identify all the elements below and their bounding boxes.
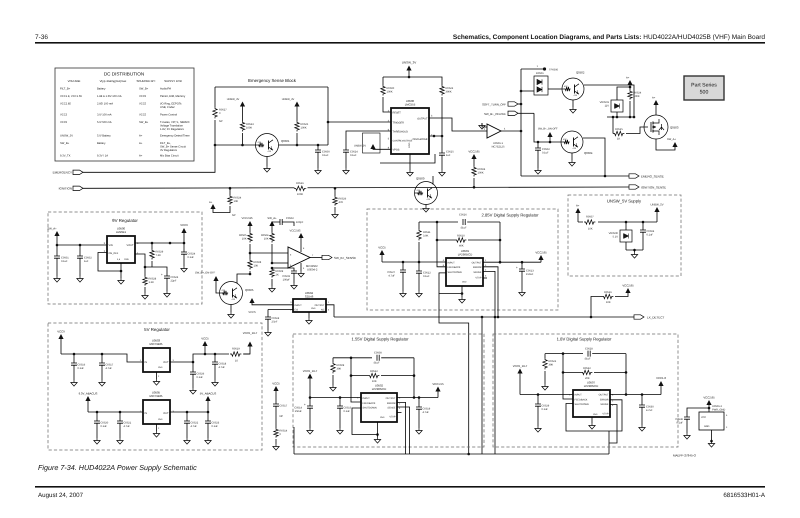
svg-text:CONTRLVOLTAGE: CONTRLVOLTAGE	[393, 139, 413, 142]
svg-text:4.7uF: 4.7uF	[423, 411, 430, 414]
svg-text:47K: 47K	[563, 138, 567, 141]
svg-text:47K: 47K	[573, 147, 577, 150]
svg-text:UNSW_3V: UNSW_3V	[227, 98, 240, 101]
svg-text:VCC1.8, VCC1.55: VCC1.8, VCC1.55	[60, 95, 82, 98]
svg-text:10K: 10K	[606, 301, 611, 304]
wire Q0505 collector	[237, 274, 250, 283]
regulator U0507 LP2985/CD	[573, 390, 610, 417]
svg-text:SW_B+: SW_B+	[139, 121, 149, 124]
svg-text:NP: NP	[280, 415, 284, 418]
wire U0501 shutdown chain to bottom bus	[439, 294, 469, 455]
svg-text:0.1uF: 0.1uF	[101, 425, 108, 428]
svg-text:August 24, 2007: August 24, 2007	[38, 492, 84, 499]
ground S2D46	[308, 312, 310, 318]
svg-text:SW_B+_ON-OFF: SW_B+_ON-OFF	[484, 112, 506, 116]
capacitor C0529 0.1uF	[537, 395, 539, 405]
svg-text:47K: 47K	[339, 201, 344, 204]
ground Q0505 emitter	[230, 305, 232, 313]
svg-text:UNSW_3V: UNSW_3V	[354, 145, 366, 148]
svg-text:9.3V / 1A: 9.3V / 1A	[97, 155, 108, 158]
svg-text:VCC5: VCC5	[248, 311, 256, 314]
power SW_A+ output	[656, 139, 675, 150]
svg-text:C0502: C0502	[286, 217, 294, 220]
svg-text:Emergency Sense Block: Emergency Sense Block	[248, 78, 297, 83]
svg-text:47K: 47K	[427, 198, 431, 201]
Part Series 500 box	[684, 76, 724, 100]
svg-text:ERROR: ERROR	[600, 398, 609, 401]
svg-text:1.8V, 3V Regulators: 1.8V, 3V Regulators	[160, 128, 184, 131]
svg-text:VCC5: VCC5	[139, 95, 147, 98]
svg-text:Schematics, Component Location: Schematics, Component Location Diagrams,…	[453, 34, 765, 41]
resistor R0500 100K	[381, 85, 385, 96]
svg-text:SENSE: SENSE	[473, 271, 482, 274]
svg-text:TP0500: TP0500	[549, 69, 559, 72]
svg-text:Part Series: Part Series	[691, 83, 717, 89]
wire ON_OFF loop	[98, 253, 121, 272]
svg-text:RESET: RESET	[393, 112, 402, 115]
wire opamp plus input	[272, 262, 288, 264]
wire U0507 sense to bottom bus	[609, 405, 617, 443]
capacitor C0503 100pF	[272, 268, 294, 271]
wire sense block top rail	[215, 86, 328, 88]
svg-text:4.7uF: 4.7uF	[106, 367, 113, 370]
svg-text:0.1uF: 0.1uF	[423, 275, 430, 278]
svg-text:100K: 100K	[246, 126, 252, 129]
resistor R0514 0	[274, 428, 278, 438]
svg-text:UNSW_3V: UNSW_3V	[402, 61, 417, 65]
wire emergency to sense block	[83, 145, 215, 172]
wire bottom sense bus	[294, 453, 609, 455]
svg-text:VIN: VIN	[109, 244, 113, 247]
resistor R0526 47K	[334, 188, 336, 196]
svg-text:Q0501: Q0501	[281, 139, 290, 143]
svg-text:S2D46: S2D46	[305, 294, 314, 298]
op-amp U0504-2 MC33502	[288, 247, 310, 268]
wire 5V output rail	[170, 354, 250, 362]
capacitor C0523b 0.1uF	[207, 412, 209, 421]
capacitor C0520 0.1uF	[96, 412, 98, 421]
svg-text:4.7uF: 4.7uF	[124, 425, 131, 428]
svg-text:Q0503: Q0503	[670, 126, 679, 130]
svg-text:A+: A+	[652, 97, 656, 100]
svg-text:GND: GND	[593, 413, 598, 416]
connector IGNITION_SENSE	[629, 185, 639, 189]
svg-text:GND: GND	[158, 418, 163, 421]
svg-text:1.55V Digital Supply Regulator: 1.55V Digital Supply Regulator	[351, 337, 409, 342]
wire U0500 adj pin	[135, 254, 152, 267]
capacitor C0513 150uF	[521, 262, 523, 269]
svg-text:NC: NC	[321, 309, 325, 312]
svg-text:47K: 47K	[258, 141, 262, 144]
svg-text:EMERGENCY: EMERGENCY	[53, 171, 72, 175]
regulator U0503 MIC79485	[143, 348, 170, 372]
svg-text:VCC2.85: VCC2.85	[535, 251, 547, 255]
resistor R0529 7.5K	[151, 243, 153, 249]
svg-text:VCC5: VCC5	[378, 246, 386, 250]
svg-text:Emergency Detect/Timer: Emergency Detect/Timer	[160, 135, 190, 138]
svg-text:500: 500	[700, 90, 709, 96]
ground 555 GND pin	[409, 154, 411, 170]
svg-text:10K: 10K	[234, 200, 239, 203]
wire 555 output	[429, 118, 487, 131]
svg-text:150uF: 150uF	[526, 273, 534, 276]
svg-text:47K: 47K	[232, 298, 236, 301]
capacitor C0519b 4.7uF	[418, 398, 420, 408]
svg-text:.01uF: .01uF	[373, 362, 380, 365]
svg-text:5.1V: 5.1V	[613, 235, 619, 238]
svg-text:U0506-1: U0506-1	[493, 142, 504, 145]
wire 1.55V feedback leg	[351, 358, 361, 402]
capacitor C0524 0.1uF	[343, 150, 349, 152]
resistor R0516b 10K	[591, 297, 602, 318]
svg-text:UNSW_3V: UNSW_3V	[282, 98, 295, 101]
resistor R0523 100K	[240, 121, 244, 132]
wire error bus right	[494, 317, 496, 454]
wire sense block right leg	[327, 87, 329, 145]
svg-text:27pF: 27pF	[272, 320, 278, 323]
svg-text:1uF: 1uF	[84, 260, 89, 263]
svg-text:C0508: C0508	[374, 352, 382, 355]
svg-text:Battery: Battery	[97, 88, 106, 91]
ground U0501 GND	[439, 273, 462, 294]
svg-text:R0516: R0516	[296, 182, 304, 185]
svg-text:IN: IN	[145, 361, 148, 364]
ground opamp vss	[300, 263, 302, 271]
svg-text:VOLTAGE: VOLTAGE	[68, 79, 81, 83]
svg-text:Mic Bias Circuit: Mic Bias Circuit	[160, 155, 179, 158]
svg-text:ERROR: ERROR	[473, 266, 482, 269]
svg-text:SW_B+: SW_B+	[139, 88, 149, 91]
capacitor C0504 0.1uF	[642, 222, 644, 230]
resistor R0509 2K	[271, 267, 274, 270]
resistor R0515 1K	[612, 117, 614, 134]
wire ignition line	[83, 187, 629, 188]
svg-text:0.1uF: 0.1uF	[542, 151, 549, 154]
ground U0502 GND	[352, 408, 378, 435]
svg-text:VCC9: VCC9	[57, 330, 65, 334]
svg-text:SW_A+: SW_A+	[47, 227, 57, 231]
svg-text:IGNITION_SENSE: IGNITION_SENSE	[641, 186, 666, 190]
svg-text:DC DISTRIBUTION: DC DISTRIBUTION	[104, 72, 144, 77]
svg-text:OUTPUT: OUTPUT	[472, 261, 482, 264]
svg-text:4.7uF: 4.7uF	[646, 409, 653, 412]
regulator U0501 LP2985/CD	[446, 258, 483, 286]
svg-text:MC33502: MC33502	[306, 265, 318, 268]
svg-text:5.0/ Battery: 5.0/ Battery	[97, 135, 111, 138]
wire U0502 sense drop	[397, 407, 410, 454]
svg-text:PWR_GND: PWR_GND	[712, 408, 725, 411]
svg-text:U0504-2: U0504-2	[307, 269, 318, 272]
node ignition-R0504 junction	[473, 186, 476, 189]
svg-text:SOURCED BY:: SOURCED BY:	[136, 79, 155, 83]
diode D0501	[521, 90, 534, 92]
wire gate rail	[607, 116, 634, 118]
resistor R0521 39K	[544, 354, 546, 358]
svg-text:SOFT_TURN_OFF: SOFT_TURN_OFF	[482, 103, 506, 107]
svg-text:VCC5_FILT: VCC5_FILT	[243, 331, 258, 335]
svg-text:VCC2.85: VCC2.85	[290, 230, 301, 233]
svg-text:10K: 10K	[242, 237, 247, 240]
wire 2.85V output rail	[483, 261, 541, 263]
ground Q0504 emitter	[571, 153, 573, 160]
capacitor C0519 27pF	[267, 310, 269, 318]
wire 1.55V output rail	[397, 397, 438, 399]
wire 9V output rail	[135, 242, 184, 244]
wire EO tap	[268, 309, 293, 311]
connector LX_DETECT	[634, 315, 644, 319]
capacitor C0528 .01uF	[588, 351, 590, 357]
transistor Q0503 P-FET	[644, 115, 668, 139]
svg-text:SHUTDOWN: SHUTDOWN	[448, 271, 462, 274]
svg-text:0.1uF: 0.1uF	[188, 256, 195, 259]
svg-text:NP: NP	[232, 214, 236, 217]
capacitor C0502c 100pF feedback	[280, 219, 282, 225]
svg-text:Battery: Battery	[97, 142, 106, 145]
svg-text:C0517: C0517	[280, 405, 288, 408]
svg-text:47K: 47K	[574, 94, 578, 97]
svg-text:Q0502: Q0502	[576, 71, 585, 75]
transistor Q0501	[256, 134, 279, 157]
svg-text:39K: 39K	[337, 367, 342, 370]
svg-text:GND: GND	[158, 366, 163, 369]
wire LX_DETECT net	[334, 316, 634, 318]
svg-text:MIC79485: MIC79485	[150, 394, 163, 398]
capacitor C0525 1uF	[441, 136, 443, 153]
resistor R0522b 20K	[563, 371, 581, 373]
svg-text:0.1uF: 0.1uF	[212, 425, 219, 428]
svg-text:9V Regulator: 9V Regulator	[112, 218, 138, 223]
svg-text:0.1uF: 0.1uF	[350, 154, 357, 157]
svg-text:4.7uF: 4.7uF	[191, 425, 198, 428]
svg-text:11V: 11V	[605, 104, 610, 107]
svg-text:UNSW_5V Supply: UNSW_5V Supply	[607, 199, 642, 204]
svg-text:5V_ABACUS: 5V_ABACUS	[200, 392, 217, 396]
wire U0502 error drop	[397, 402, 406, 454]
svg-text:VCC2.85: VCC2.85	[60, 103, 71, 106]
svg-text:OUTPUT: OUTPUT	[386, 397, 396, 400]
ground Q0502 emitter	[572, 100, 574, 107]
svg-text:FEEDBACK: FEEDBACK	[575, 398, 588, 401]
capacitor C0508 .01uF	[377, 355, 379, 361]
svg-text:NP: NP	[219, 120, 223, 123]
svg-text:VCC2.85: VCC2.85	[622, 284, 634, 288]
svg-text:100K: 100K	[478, 171, 484, 174]
svg-text:VCC1.8: VCC1.8	[656, 376, 666, 380]
svg-text:1.88 & 1.55/ 100 mA: 1.88 & 1.55/ 100 mA	[97, 95, 122, 98]
svg-text:VCC5: VCC5	[60, 121, 68, 124]
wire 555 top rail	[383, 77, 442, 85]
svg-text:0.1uF: 0.1uF	[542, 408, 549, 411]
resistor R0528 1.2K	[143, 276, 147, 286]
wire Q0501 base rail	[215, 144, 256, 146]
svg-text:LP2985/CD: LP2985/CD	[372, 387, 386, 391]
svg-text:VCC2.85: VCC2.85	[242, 217, 253, 220]
svg-text:100K: 100K	[297, 193, 303, 196]
svg-text:0.1uF: 0.1uF	[647, 233, 654, 236]
regulator U0502 LP2985/CD	[361, 393, 397, 422]
wire 1.8V top loop right leg	[625, 354, 627, 395]
ground UNSW	[626, 249, 643, 251]
capacitor C0514 150uF	[309, 398, 311, 407]
svg-text:1.8V Digital Supply Regulator: 1.8V Digital Supply Regulator	[557, 337, 612, 342]
node ignition-R0524 junction	[229, 187, 232, 190]
svg-text:LP2985/CD: LP2985/CD	[584, 384, 598, 388]
wire UNSW rail	[578, 221, 657, 223]
capacitor C0502 0.1uF	[537, 141, 540, 144]
svg-text:2.85/ 100 mA: 2.85/ 100 mA	[97, 103, 113, 106]
5V Regulator block	[48, 323, 262, 450]
capacitor C0502 1uF (9V)	[79, 245, 81, 256]
capacitor C0517 4.7uF	[101, 354, 103, 363]
svg-text:SENSE: SENSE	[387, 407, 396, 410]
svg-text:SW_B+_SENSE: SW_B+_SENSE	[334, 256, 356, 260]
svg-text:INPUT: INPUT	[363, 397, 371, 400]
svg-text:5V Regulator: 5V Regulator	[144, 327, 170, 332]
svg-text:THRESHOLD: THRESHOLD	[393, 131, 409, 134]
svg-text:4.7uF: 4.7uF	[388, 274, 395, 277]
svg-text:150uF: 150uF	[295, 410, 303, 413]
svg-text:IGNITION: IGNITION	[59, 187, 72, 191]
zener VR0500 5.1V	[625, 222, 627, 230]
svg-text:47K: 47K	[222, 289, 226, 292]
wire 1.8V feedback leg	[563, 354, 573, 399]
svg-text:SW_A+: SW_A+	[267, 217, 277, 220]
svg-text:VTAP: VTAP	[602, 413, 608, 416]
svg-text:7-36: 7-36	[35, 34, 48, 41]
wire 2.85V input rail	[382, 261, 446, 263]
svg-text:SW_B+_ON-OFF: SW_B+_ON-OFF	[195, 272, 216, 275]
svg-text:0.1uF: 0.1uF	[61, 260, 68, 263]
capacitor C0526b 0.1uF	[192, 362, 194, 372]
svg-text:1.2K: 1.2K	[149, 281, 155, 284]
wire 1.55V top loop right leg	[413, 358, 415, 398]
svg-text:SENSE: SENSE	[600, 403, 609, 406]
wire 1.8V top loop	[545, 353, 583, 355]
ground U0507 GND	[591, 417, 593, 423]
svg-text:GND: GND	[124, 258, 129, 261]
svg-text:R0516: R0516	[604, 291, 612, 294]
transistor Q0504	[561, 131, 583, 153]
svg-text:OUTPUT: OUTPUT	[417, 118, 428, 121]
svg-text:FILT_B+: FILT_B+	[60, 88, 71, 91]
svg-text:R0512: R0512	[370, 370, 378, 373]
svg-text:VCC9: VCC9	[180, 223, 188, 227]
DC DISTRIBUTION table	[55, 68, 194, 161]
svg-text:INPUT: INPUT	[575, 394, 583, 397]
wire S2D46 output to LX net	[326, 305, 334, 317]
svg-text:40K: 40K	[459, 245, 464, 248]
svg-text:100K: 100K	[301, 126, 307, 129]
ground U0503	[156, 372, 158, 379]
svg-text:IN: IN	[145, 412, 148, 415]
svg-text:SW_B+_ON-OFF: SW_B+_ON-OFF	[538, 128, 558, 131]
wire D0501 to Q0502	[548, 88, 562, 90]
svg-text:1uF: 1uF	[446, 154, 451, 157]
svg-text:0.1uF: 0.1uF	[322, 154, 329, 157]
wire U0507 error loop	[566, 400, 622, 431]
zener VR0501 11V	[617, 87, 630, 100]
wire Q0502 collector to gate node	[584, 85, 634, 117]
svg-text:2.85V Digital Supply Regulator: 2.85V Digital Supply Regulator	[481, 213, 539, 218]
svg-text:LM2941: LM2941	[116, 230, 127, 234]
svg-text:VCC5: VCC5	[139, 103, 147, 106]
svg-text:10K: 10K	[254, 264, 259, 267]
wire U0502 vtap stub	[397, 412, 402, 414]
transistor Q0502	[562, 78, 584, 100]
resistor R0519 10	[229, 351, 244, 357]
capacitor C0521 4.7uF	[119, 412, 121, 421]
power VCC5_FILT output	[243, 347, 250, 355]
resistor R0510 40K	[437, 239, 455, 241]
svg-text:GND: GND	[311, 307, 316, 310]
svg-text:UNSW_3V: UNSW_3V	[60, 135, 73, 138]
svg-text:OUT: OUT	[163, 361, 169, 364]
wire Q0500 collector stub	[432, 176, 434, 185]
wire opamp output to sense connector	[310, 257, 322, 259]
svg-text:VCC3: VCC3	[60, 114, 68, 117]
resistor R0525 100K	[295, 121, 299, 132]
svg-text:VPOS: VPOS	[393, 149, 400, 152]
svg-text:Vtyp+Rating(mA)max: Vtyp+Rating(mA)max	[100, 79, 127, 83]
capacitor C0516 0.1uF	[73, 354, 75, 363]
svg-text:22pF: 22pF	[171, 279, 177, 282]
svg-text:A+: A+	[626, 77, 630, 80]
svg-text:C0526: C0526	[459, 214, 467, 217]
svg-text:VOUT: VOUT	[127, 244, 134, 247]
svg-text:100K: 100K	[634, 95, 640, 98]
wire abacus output rail	[170, 411, 208, 413]
resistor R0511 3.9K	[418, 222, 420, 229]
resistor R0507 10K	[583, 219, 598, 225]
capacitor C0524b 0.1uF	[169, 242, 171, 244]
wire 1.8V output rail	[610, 394, 661, 396]
resistor R0504 100K	[472, 166, 476, 177]
capacitor C0523 22pF	[152, 267, 167, 276]
svg-text:.01uF: .01uF	[460, 227, 467, 230]
svg-text:47K: 47K	[564, 85, 568, 88]
resistor R0512 10K	[351, 375, 368, 377]
svg-text:10K: 10K	[588, 228, 593, 231]
wire 5V input rail	[61, 354, 143, 362]
svg-text:6816533H01-A: 6816533H01-A	[723, 492, 765, 499]
svg-text:C0528: C0528	[585, 348, 593, 351]
buffer U0506-1 NC7SZ125	[487, 124, 501, 138]
capacitor C0522 4.7uF	[186, 412, 188, 421]
ground U0506-2	[711, 430, 713, 441]
op-amp U0500 LMC555 timer	[391, 108, 429, 154]
capacitor C0527 4.7uF	[402, 262, 404, 270]
regulator U0500 LM2941	[107, 236, 135, 263]
reference U0504 S2D46	[293, 299, 326, 312]
transistor Q0505	[220, 282, 243, 305]
ground U0500 GND	[120, 263, 122, 278]
capacitor C0526 .01uF	[463, 219, 465, 225]
svg-text:Q0505: Q0505	[245, 288, 254, 292]
svg-text:GND: GND	[704, 425, 710, 428]
svg-text:9.3V_ABACUS: 9.3V_ABACUS	[79, 392, 98, 396]
capacitor C0517b NP	[273, 404, 279, 406]
svg-text:FEEDBACK: FEEDBACK	[363, 402, 376, 405]
wire 555 threshold to C0524	[346, 131, 391, 150]
wire 1.55V input rail	[310, 397, 361, 399]
svg-text:0.1uF: 0.1uF	[344, 410, 351, 413]
ground Q0500 emitter	[425, 205, 427, 207]
svg-text:VCC2.85: VCC2.85	[703, 396, 715, 400]
connector EMERG_SENSE	[629, 174, 639, 178]
svg-text:R0515: R0515	[615, 128, 623, 131]
svg-text:MIC79485: MIC79485	[150, 342, 163, 346]
wire U0501 vtap stub	[483, 277, 487, 279]
